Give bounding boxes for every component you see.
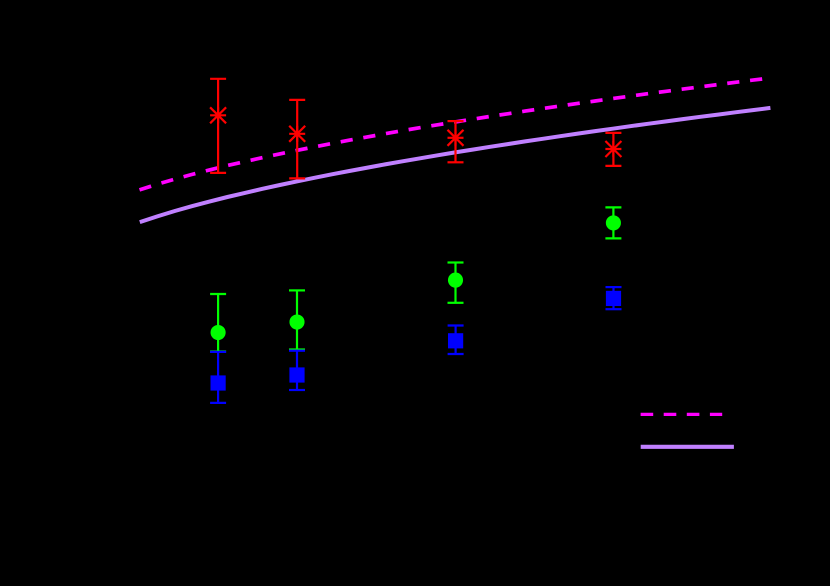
- green errorbar point 1: [210, 294, 226, 352]
- red errorbar point 3: [448, 121, 464, 162]
- green errorbar point 2: [289, 290, 305, 349]
- blue errorbar point 2: [289, 351, 305, 390]
- curve: purple solid model: [140, 108, 771, 222]
- legend dashed magenta sample: [641, 413, 723, 416]
- green errorbar point 3: [448, 263, 464, 303]
- red errorbar point 2: [289, 100, 305, 178]
- blue errorbar point 4: [606, 287, 622, 309]
- green errorbar point 4: [605, 207, 621, 238]
- blue errorbar point 1: [210, 352, 226, 403]
- curve: magenta dashed model: [140, 78, 771, 190]
- red errorbar point 1: [210, 79, 226, 173]
- legend solid purple sample: [641, 445, 734, 449]
- blue errorbar point 3: [448, 326, 464, 355]
- red errorbar point 4: [605, 133, 621, 166]
